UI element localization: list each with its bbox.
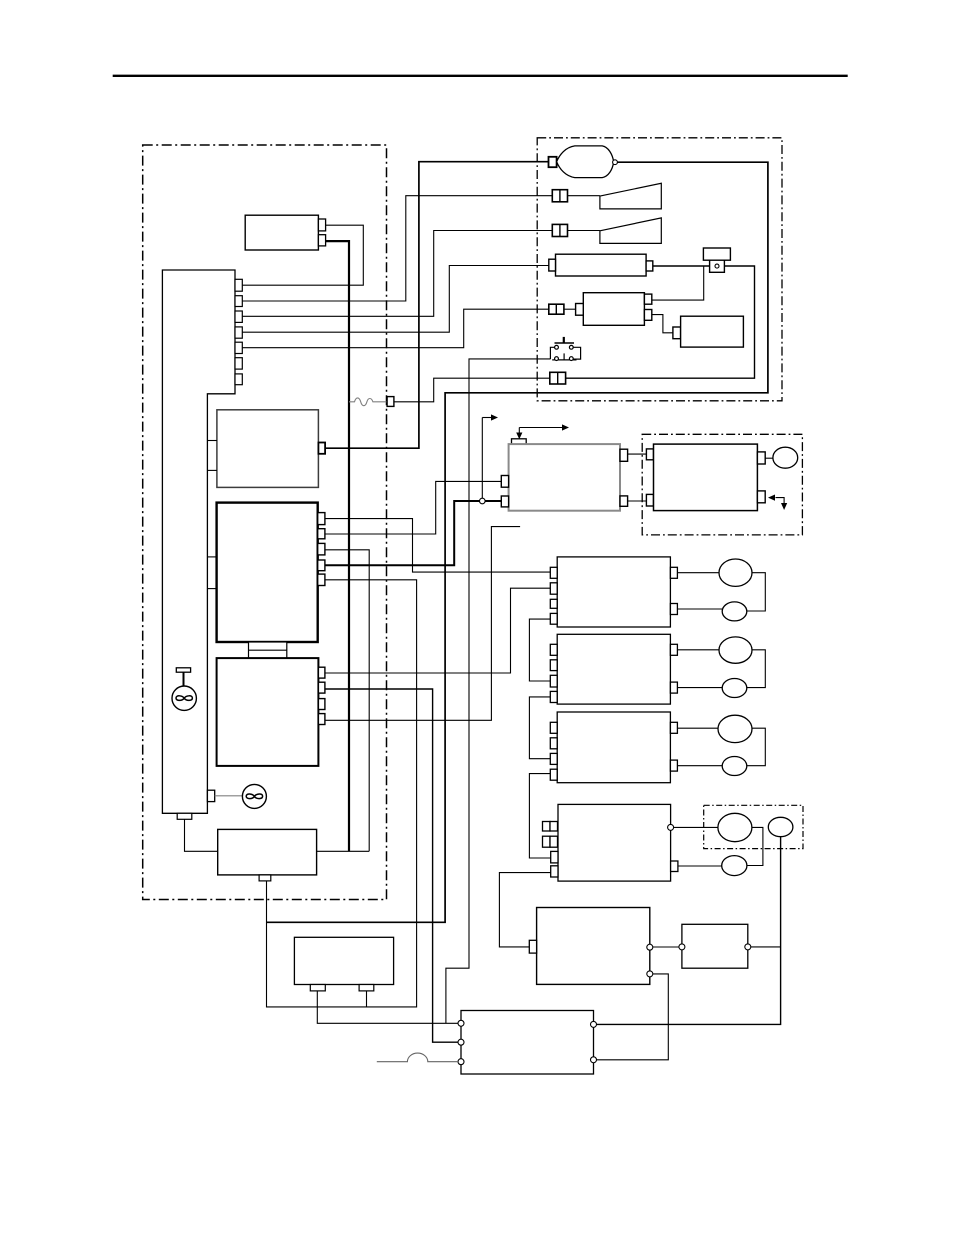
wire B7 node1 to bottom-left box xyxy=(317,991,458,1023)
flasher unit R1 xyxy=(557,557,670,627)
R1 bulb wire 1 xyxy=(677,572,719,574)
main unit right tab 2 xyxy=(620,496,628,506)
relay 2 box xyxy=(583,293,644,326)
relay 1 long box xyxy=(556,254,647,276)
B4 right node xyxy=(668,824,674,830)
wire B4 tab2 to B5 tab xyxy=(499,873,550,947)
speaker1 connector xyxy=(552,190,567,202)
wire relay feed branch to relay2 top tab xyxy=(652,266,704,300)
wire R2 tab4 to R3 tab3 xyxy=(529,697,550,759)
horn body xyxy=(557,146,614,178)
R3 left tab 1 xyxy=(550,722,557,733)
R3 bulb wire 1 xyxy=(677,727,718,729)
speaker1 horn trapezoid xyxy=(600,183,661,209)
box2 right tab 3 xyxy=(318,543,325,555)
wire B5 node1 to B6 xyxy=(653,946,679,948)
wire junction tab3 to speaker2 xyxy=(242,231,552,317)
R3 small bulb xyxy=(722,757,747,776)
battery terminal tab 1 xyxy=(318,219,325,231)
resistor box xyxy=(681,316,744,347)
wire B6 right to vertical xyxy=(751,946,781,948)
meter unit left tab 1 xyxy=(646,449,653,460)
speaker2 wire to trapezoid xyxy=(568,230,600,232)
B7 left node 2 xyxy=(458,1039,464,1045)
bridge connector between box2 and box3 xyxy=(249,642,287,658)
wire B5 node2 to B7 node2 right xyxy=(597,974,669,1060)
wire horn return long route xyxy=(267,162,768,922)
wire junction tab2 to speaker1 xyxy=(242,196,552,301)
wire box3 tab4 to stub under main unit xyxy=(325,527,520,721)
rectifier box B5 xyxy=(537,908,650,985)
B5 left tab xyxy=(529,940,536,953)
pump motor 2 circle xyxy=(242,784,266,808)
R2 bulb wire 1 xyxy=(677,649,719,651)
wire junction bottom tab to lower box xyxy=(185,819,218,851)
R1 bulb wire 2 xyxy=(677,608,722,610)
lower box inside left enclosure xyxy=(218,829,317,875)
relay1 right tab xyxy=(646,261,653,271)
wire horn feed (thick) xyxy=(325,162,548,449)
indicator circle in dash-dot xyxy=(768,817,793,836)
relay2 right tab lower xyxy=(644,310,651,321)
R3 left tab 3 xyxy=(550,753,557,764)
ground lead with hump (gray) xyxy=(377,1053,458,1062)
node on main unit tab2 wire xyxy=(480,498,486,504)
box2 right tab 2 xyxy=(318,529,325,539)
main unit right arrow xyxy=(519,427,562,429)
relay2 left tab xyxy=(576,304,584,316)
resistor box left tab xyxy=(673,327,681,339)
box3 right tab 4 xyxy=(318,714,325,725)
junction box tab 3 xyxy=(235,311,242,322)
R1 left tab 3 xyxy=(550,599,557,608)
R3 bulb wire 2 xyxy=(677,765,722,767)
external ref arrow line to node xyxy=(481,418,483,499)
wire junction tab4 to relay1 xyxy=(242,266,549,333)
B7 right node 2 xyxy=(591,1057,597,1063)
handlebar switch contacts xyxy=(550,337,580,361)
bracket sensor top rect xyxy=(703,248,730,260)
pump motor 1 stem xyxy=(183,672,185,686)
meter lamp circle xyxy=(773,447,798,468)
junction box tab 1 xyxy=(235,279,242,291)
wire fuse to handlebar connector xyxy=(394,378,550,402)
B4 right tab xyxy=(671,861,678,872)
box2 right tab 5 xyxy=(318,574,325,585)
pump motor 2 tab on junction box xyxy=(207,790,214,801)
meter unit right tab 2 xyxy=(757,491,765,503)
control unit box 3 xyxy=(217,658,319,766)
B7 right node 1 xyxy=(591,1021,597,1027)
wire B4 node to indicator big bulb xyxy=(674,826,718,828)
box1 left stub upper xyxy=(207,440,217,442)
enclosure: indicator lamp dash-dot box xyxy=(704,805,803,848)
B4 left tab 2 xyxy=(551,866,558,877)
wire main unit to meter tab2 xyxy=(628,500,647,502)
wire handlebar connector to relay feed vertical xyxy=(566,266,755,378)
box3 right tab 3 xyxy=(318,699,325,710)
wire handlebar switch to bottom net xyxy=(446,359,551,1023)
R3 big bulb xyxy=(718,715,752,742)
R2 bulb link xyxy=(747,650,766,688)
speaker2 connector xyxy=(552,224,567,236)
B4 left tab 1 xyxy=(551,851,558,863)
meter unit box xyxy=(654,444,758,511)
R1 right tab 1 xyxy=(670,567,677,578)
relay2 connector xyxy=(549,304,564,314)
R1 bulb link xyxy=(747,573,766,611)
wire battery tab2 down (thick feed) xyxy=(326,241,349,851)
pump motor 2 wire xyxy=(215,795,243,797)
horn terminal circle xyxy=(613,160,618,165)
box2 left stub upper xyxy=(207,556,216,558)
box1 right tab xyxy=(318,443,325,454)
wire box2 tab1 to flasher R1 tab1 xyxy=(325,519,550,573)
speaker2 horn trapezoid xyxy=(600,218,661,244)
B6 right node xyxy=(745,944,751,950)
bottom-left switch box xyxy=(294,937,393,984)
B4 connector squares pair 2 xyxy=(543,836,551,847)
bottom-left box tab 1 xyxy=(310,985,325,991)
pump motor 1 circle xyxy=(172,686,196,710)
R2 right tab 2 xyxy=(670,682,677,693)
battery box xyxy=(245,215,318,250)
box3 right tab 2 xyxy=(318,682,325,693)
junction box tab 2 xyxy=(235,296,242,307)
R2 left tab 2 xyxy=(550,660,557,671)
B5 right node 1 xyxy=(647,944,653,950)
box2 left stub lower xyxy=(207,588,216,590)
bracket sensor bottom rect xyxy=(710,260,725,272)
R1 left tab 4 xyxy=(550,613,557,624)
regulator box B6 xyxy=(682,924,748,968)
fuse line (gray) xyxy=(349,398,387,406)
wire indicator circle down to B7 node1 xyxy=(597,837,781,1025)
relay1 left tab xyxy=(549,259,556,271)
meter external arrow xyxy=(776,498,785,504)
R2 small bulb xyxy=(722,679,747,698)
external ref arrow head xyxy=(482,417,491,419)
main unit left tab 1 xyxy=(501,476,508,488)
wire R1 tab4 to R2 tab3 xyxy=(529,619,550,681)
wire main unit to meter tab1 xyxy=(628,453,647,455)
control unit box 2 (thick) xyxy=(217,503,318,642)
B4 connector squares pair 1 xyxy=(543,822,551,832)
R1 big bulb xyxy=(719,559,752,586)
pump motor 2 rotor glyph xyxy=(246,794,262,799)
junction box tab 7 xyxy=(235,374,242,385)
fuse line connector rect xyxy=(387,397,394,407)
pump motor 1 rotor glyph xyxy=(176,696,192,701)
R2 big bulb xyxy=(719,637,752,663)
wire lower box right to verticals xyxy=(317,850,370,852)
bracket sensor circle xyxy=(715,264,719,268)
B5 right node 2 xyxy=(647,971,653,977)
junction box tab 6 xyxy=(235,358,242,369)
R3 right tab 2 xyxy=(670,760,677,771)
R1 left tab 2 xyxy=(550,583,557,594)
wire box2 tab4 to main unit left tab2 (thick) xyxy=(325,501,501,565)
R3 left tab 2 xyxy=(550,738,557,749)
bridge midline xyxy=(249,649,287,651)
B7 left node 3 xyxy=(458,1059,464,1065)
R2 bulb wire 2 xyxy=(677,687,722,689)
wire B4 right tab to small bulb xyxy=(678,865,722,867)
main unit right tab 1 xyxy=(620,449,628,461)
indicator big bulb xyxy=(718,813,752,841)
control unit box 1 xyxy=(217,410,319,488)
magneto box B7 xyxy=(461,1011,594,1075)
wire box3 tab1 to flasher R1 tab2 xyxy=(325,588,550,673)
wire box2 tab2 to main unit left tab1 xyxy=(325,481,501,534)
wire bottom-left box right tab stub xyxy=(366,991,368,1007)
R1 left tab 1 xyxy=(550,567,557,578)
wire indicator bulbs link xyxy=(747,827,763,865)
enclosure: handlebar group dash-dot box (top right) xyxy=(537,138,782,401)
R3 right tab 1 xyxy=(670,722,677,733)
wire box3 tab2 to bottom unit node2 xyxy=(325,689,458,1042)
lower small bulb xyxy=(722,856,747,876)
main control unit box xyxy=(509,444,620,511)
wire junction tab5 to relay2 connector xyxy=(242,309,549,348)
R2 left tab 4 xyxy=(550,691,557,702)
box1 left stub lower xyxy=(207,469,217,471)
box2 right tab 4 xyxy=(318,560,325,571)
junction box tab 5 xyxy=(235,342,242,353)
flasher unit R2 xyxy=(557,634,670,704)
R1 right tab 2 xyxy=(670,604,677,615)
lower box bottom tab xyxy=(259,875,271,881)
handlebar feed connector xyxy=(550,372,566,384)
flasher unit R3 xyxy=(557,712,670,783)
enclosure: meter group dash-dot box (mid right) xyxy=(642,434,802,535)
wire lower box bottom tab down and across xyxy=(267,580,417,1007)
speaker1 wire to trapezoid xyxy=(568,195,600,197)
main unit down arrow xyxy=(518,428,520,434)
tall junction box xyxy=(162,270,235,813)
junction box tab 4 xyxy=(235,327,242,338)
B6 left node xyxy=(679,944,685,950)
R1 small bulb xyxy=(722,602,747,621)
relay2 right tab upper xyxy=(644,294,651,304)
R2 left tab 1 xyxy=(550,644,557,655)
junction box bottom tab xyxy=(177,813,192,819)
main unit top tab xyxy=(512,439,527,444)
box2 right tab 1 xyxy=(318,513,325,525)
wire meter tab1 to meter lamp xyxy=(765,457,773,459)
wire battery tab1 to junction box tab1 xyxy=(242,225,363,285)
B7 left node 1 xyxy=(458,1020,464,1026)
R2 left tab 3 xyxy=(550,675,557,687)
R3 left tab 4 xyxy=(550,769,557,780)
R3 bulb link xyxy=(747,728,766,766)
relay assembly box B4 xyxy=(558,804,671,881)
box3 right tab 1 xyxy=(318,667,325,678)
main unit left tab 2 xyxy=(501,496,508,507)
wire R3 tab4 to bottom relay tab1 xyxy=(529,774,550,858)
battery terminal tab 2 xyxy=(318,235,325,246)
wire relay2 to resistor box xyxy=(652,315,673,333)
page top rule xyxy=(113,75,848,77)
relay2 connector-tab wire xyxy=(564,308,576,310)
horn connector xyxy=(549,157,557,167)
pump motor 1 stem bar xyxy=(176,668,190,672)
meter unit left tab 2 xyxy=(646,494,653,506)
R2 right tab 1 xyxy=(670,644,677,655)
meter unit right tab 1 xyxy=(757,452,765,464)
bottom-left box tab 2 xyxy=(359,985,374,991)
wire box2 tab3 down to lower box net xyxy=(325,550,369,852)
enclosure: left main harness dash-dot box xyxy=(143,145,387,900)
